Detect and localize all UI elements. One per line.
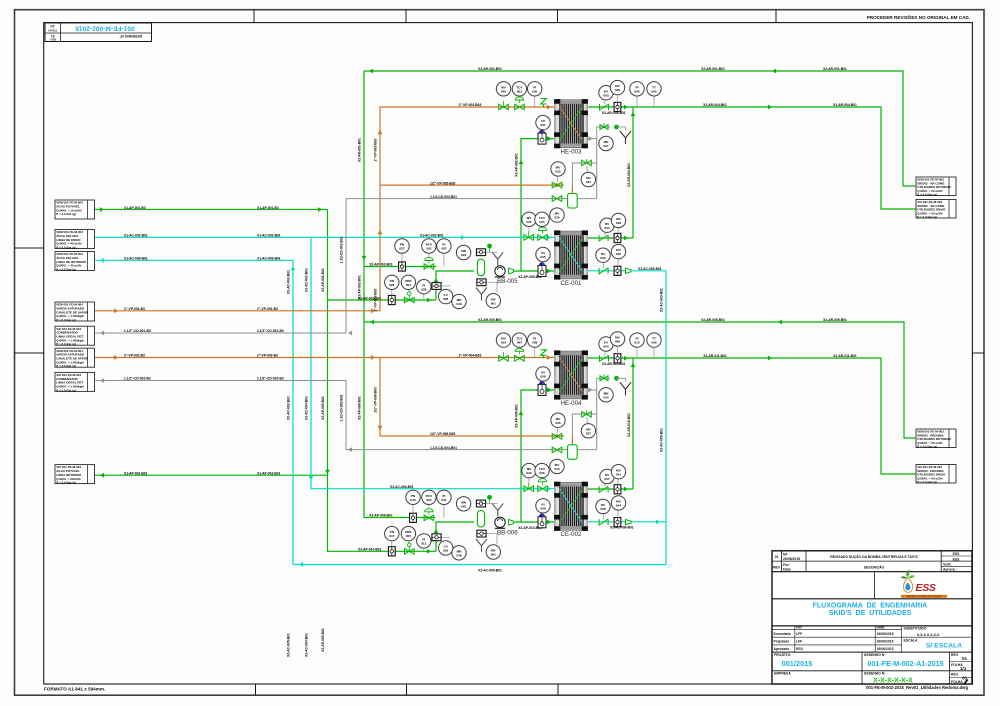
- svg-text:027: 027: [399, 247, 404, 251]
- svg-text:P = 3,0 Bar (g): P = 3,0 Bar (g): [56, 318, 76, 322]
- wire green riser BB-005 discharge to HE-003 inlet: [521, 139, 554, 271]
- svg-text:002: 002: [491, 553, 496, 557]
- svg-text:1.1/2"-CD-002-B3: 1.1/2"-CD-002-B3: [124, 377, 151, 381]
- heat exchanger CE-002 (plate, chilled water): [554, 482, 588, 538]
- svg-text:REV: REV: [773, 565, 781, 569]
- svg-text:DESCRIÇÃO: DESCRIÇÃO: [864, 565, 885, 570]
- source box B1 agua potavel: [55, 200, 95, 219]
- svg-text:X1-AC-001-B01: X1-AC-001-B01: [124, 234, 148, 238]
- arrow suction2 bottom skid: [427, 549, 431, 554]
- valve condensate bottom skid: [552, 447, 562, 453]
- svg-text:X1-AC-003-B01: X1-AC-003-B01: [124, 257, 148, 261]
- svg-text:006: 006: [651, 89, 656, 93]
- svg-text:005: 005: [539, 220, 544, 224]
- instrument TT-006: [647, 82, 661, 96]
- svg-text:CE-002: CE-002: [561, 531, 583, 538]
- svg-text:PROCEDER REVISÕES NO ORIGIN: PROCEDER REVISÕES NO ORIGINAL EM CAD.: [867, 14, 970, 20]
- svg-text:PROJETO:: PROJETO:: [774, 653, 791, 657]
- svg-text:007: 007: [441, 247, 446, 251]
- instrument MN-029: [452, 294, 466, 308]
- svg-text:012: 012: [421, 542, 426, 546]
- stem MV meter cyan top skid: [617, 259, 620, 266]
- ball vent bottom skid: [614, 376, 619, 381]
- svg-text:01: 01: [51, 34, 55, 38]
- solenoid valve XV CE inlet bottom skid: [538, 517, 546, 528]
- pump BB-006 centrifugal: [495, 517, 518, 536]
- instrument XV-008: [536, 367, 550, 381]
- valve MV steam block bottom skid: [499, 356, 509, 362]
- svg-text:053: 053: [501, 341, 506, 345]
- valve condensate top skid: [552, 196, 562, 202]
- svg-text:X1-AP-002-B01: X1-AP-002-B01: [257, 472, 281, 476]
- svg-text:P = 5,0 Bar (g): P = 5,0 Bar (g): [917, 480, 937, 484]
- svg-text:1/2"-VP-006-B03: 1/2"-VP-006-B03: [430, 432, 456, 436]
- instrument XV-005: [536, 247, 550, 261]
- check valve CE outlet green top skid: [599, 235, 608, 241]
- svg-text:S/ ESCALA: S/ ESCALA: [926, 643, 962, 650]
- sink box B5 condensado: [55, 326, 95, 346]
- revision table: [772, 551, 972, 572]
- svg-text:LFF: LFF: [796, 632, 802, 636]
- flow element CE outlet cyan top skid: [614, 266, 621, 275]
- wire green BB-006 discharge to CE-002: [514, 521, 554, 523]
- instrument EV-004: [599, 337, 613, 351]
- svg-text:002: 002: [517, 89, 522, 93]
- svg-text:REV.: REV.: [951, 653, 959, 657]
- funnel separator vent top skid: [492, 252, 503, 265]
- wire green CE-001 outlet: [588, 237, 633, 239]
- instrument MV-041: [611, 465, 625, 479]
- svg-text:REVISADO SUÇÃO DA BOMBA CE: REVISADO SUÇÃO DA BOMBA CENTRIFUGA E TAG…: [830, 554, 918, 559]
- check valve CE outlet green bottom skid: [599, 486, 608, 492]
- wire gray bottom trap line: [346, 449, 597, 451]
- wire green top manifold line2 riser into separator: [436, 271, 474, 300]
- wire green box8 return line: [95, 474, 328, 476]
- instrument MN-026: [456, 245, 470, 259]
- pressure control valve PCV top skid: [424, 264, 434, 270]
- svg-text:028: 028: [616, 221, 621, 225]
- svg-text:037: 037: [586, 431, 591, 435]
- svg-text:001: 001: [491, 301, 496, 305]
- instrument PN-028: [385, 275, 399, 289]
- wire green BB-005 discharge to CE-001: [514, 270, 554, 272]
- svg-text:P = 3,0 Bar (g): P = 3,0 Bar (g): [56, 364, 76, 368]
- svg-text:040: 040: [554, 467, 559, 471]
- svg-text:X2-AP-006-B01: X2-AP-006-B01: [369, 514, 393, 518]
- solenoid valve XV CE inlet top skid: [538, 266, 546, 277]
- instrument PI-007: [437, 239, 451, 253]
- svg-text:ESCALA: ESCALA: [904, 639, 918, 643]
- instrument DV-006: [596, 248, 610, 262]
- valve steam trap inlet top skid: [552, 182, 562, 188]
- arrow HE condensate out top skid: [588, 136, 592, 141]
- svg-text:X2-AP-001-B01: X2-AP-001-B01: [321, 268, 325, 292]
- svg-text:X2-AR-005-B01: X2-AR-005-B01: [478, 318, 502, 322]
- stem EV top skid: [604, 100, 605, 104]
- sink box R4 envio skid: [916, 465, 956, 485]
- svg-text:025: 025: [526, 220, 531, 224]
- level glass top skid: [432, 283, 441, 290]
- solenoid valve XV HE inlet bottom skid: [538, 384, 546, 395]
- sink box R2 envio skid: [916, 200, 956, 220]
- instrument MN-034: [599, 388, 613, 402]
- instrument MV-036: [551, 413, 565, 427]
- stem MV meter green bottom skid: [617, 479, 620, 485]
- stem PI suction bottom skid: [443, 504, 445, 518]
- sink box B3 agua gelada retorno: [55, 252, 95, 272]
- svg-text:044: 044: [616, 504, 621, 508]
- svg-text:045: 045: [501, 89, 506, 93]
- wire vent elbow bottom skid: [617, 378, 626, 382]
- svg-text:BB-006: BB-006: [497, 529, 518, 536]
- funnel separator vent bottom skid: [492, 504, 503, 517]
- instrument PI-009: [528, 333, 542, 347]
- svg-text:2"-VP-002-B3: 2"-VP-002-B3: [124, 354, 145, 358]
- air separator bottom skid: [477, 511, 484, 528]
- svg-text:P = 4,0 Bar (g): P = 4,0 Bar (g): [56, 246, 76, 250]
- flow element HE outlet top skid: [614, 102, 621, 111]
- svg-text:1/2"-VP-006-B03: 1/2"-VP-006-B03: [374, 387, 378, 413]
- top-left rotated doc number strip: [45, 23, 152, 42]
- svg-text:008: 008: [540, 375, 545, 379]
- stem XV HE top skid: [542, 130, 544, 133]
- svg-text:Executado: Executado: [774, 632, 791, 636]
- svg-text:002: 002: [426, 247, 431, 251]
- arrow HE condensate out bottom skid: [588, 388, 592, 393]
- svg-text:X2-AP-002-B01: X2-AP-002-B01: [515, 153, 519, 177]
- instrument MV-040: [550, 459, 564, 473]
- instrument MV-030: [611, 244, 625, 258]
- instrument TCV-005: [535, 212, 549, 226]
- solenoid valve XV HE inlet top skid: [538, 133, 546, 144]
- instrument TT-008: [647, 333, 661, 347]
- stem PI header top skid: [636, 96, 638, 107]
- instrument CV-018: [439, 541, 453, 555]
- wire orange steam supply box4: [95, 310, 381, 312]
- fold marks left: [15, 247, 44, 249]
- svg-text:ESS: ESS: [953, 552, 961, 556]
- wire cyan box3 return line: [95, 259, 294, 261]
- wire green top suction branch (X2-AP-002-B01): [364, 266, 436, 268]
- instrument MV-039: [522, 463, 536, 477]
- instrument MN-045: [456, 497, 470, 511]
- title block outer frame: [772, 551, 972, 684]
- svg-text:Por:: Por:: [796, 626, 803, 630]
- instrument PI-006: [630, 82, 644, 96]
- heat exchanger HE-003 (plate, steam/water): [554, 99, 588, 155]
- svg-text:P = 5,0 Bar (g): P = 5,0 Bar (g): [917, 215, 937, 219]
- svg-text:FOLHA: FOLHA: [48, 28, 57, 32]
- svg-text:008: 008: [600, 507, 605, 511]
- stem PN suction1 top skid: [401, 253, 403, 262]
- globe valve suction2 top skid: [405, 297, 415, 303]
- wire cyan bottom return header: [293, 564, 666, 566]
- svg-text:006: 006: [540, 506, 545, 510]
- valve steam trap inlet bottom skid: [552, 434, 562, 440]
- svg-text:008: 008: [651, 341, 656, 345]
- svg-text:ESS: ESS: [953, 557, 961, 561]
- pump BB-005 centrifugal: [495, 266, 518, 285]
- stem TT header top skid: [653, 96, 655, 107]
- reducer CE outlet cyan top skid: [626, 268, 632, 273]
- control valve TCV steam top skid: [515, 104, 525, 110]
- wire orange steam supply box6 to HE-004: [95, 357, 555, 359]
- wire green top manifold line2: [328, 299, 437, 301]
- svg-text:X2-AP-002-B01: X2-AP-002-B01: [358, 275, 362, 299]
- stem MV meter top skid: [617, 95, 619, 103]
- valve vent bottom skid: [600, 376, 608, 381]
- stem MV trap bottom skid: [556, 427, 559, 433]
- svg-text:P = 3,0 Bar (g): P = 3,0 Bar (g): [917, 193, 937, 197]
- valve trap bypass top skid: [582, 160, 592, 166]
- flow element CE outlet cyan bottom skid: [614, 518, 621, 527]
- source box B4 vapor saturado: [55, 302, 95, 322]
- svg-text:018: 018: [443, 549, 448, 553]
- svg-text:2"-VP-001-B3: 2"-VP-001-B3: [124, 307, 145, 311]
- funnel separator drain top skid: [476, 288, 487, 301]
- svg-text:X2-AR-010-B01: X2-AR-010-B01: [627, 413, 631, 437]
- svg-text:X-X-X-X-X-X: X-X-X-X-X-X: [873, 677, 913, 684]
- instrument MN-027: [599, 136, 613, 150]
- sight glass bottom bottom skid: [477, 530, 486, 537]
- wire green riser CE-002 outlet to HE-004 line: [632, 358, 634, 489]
- instrument PN-027: [395, 239, 409, 253]
- svg-text:X2-AC-004-B01: X2-AC-004-B01: [390, 485, 414, 489]
- svg-text:Verif.:: Verif.:: [943, 563, 952, 567]
- flow element suction2 top skid: [388, 295, 395, 304]
- instrument MV-026: [550, 208, 564, 222]
- svg-text:REV.: REV.: [951, 673, 959, 677]
- svg-text:2"-VP-002-B3: 2"-VP-002-B3: [257, 354, 278, 358]
- wire gray HE-004 condensate outlet: [588, 390, 597, 450]
- stem PI top skid: [534, 96, 536, 107]
- vent ball separator bottom skid: [487, 495, 492, 500]
- svg-text:P = 3,0 Bar (g): P = 3,0 Bar (g): [56, 342, 76, 346]
- valve vent top skid: [600, 125, 608, 130]
- funnel drain top skid: [620, 131, 631, 144]
- svg-text:1/1: 1/1: [960, 666, 967, 671]
- sink box B8 agua potavel retorno: [55, 465, 95, 485]
- svg-text:16/06/2015: 16/06/2015: [877, 632, 894, 636]
- svg-text:029: 029: [456, 302, 461, 306]
- svg-text:CE-001: CE-001: [561, 280, 583, 287]
- stem PRE top skid: [407, 290, 410, 292]
- svg-text:X2-AP-006-B01: X2-AP-006-B01: [515, 404, 519, 428]
- svg-text:X2-AC-002-B01: X2-AC-002-B01: [287, 270, 291, 294]
- stem MV meter green top skid: [617, 228, 620, 234]
- svg-text:X1-AP-001-B3: X1-AP-001-B3: [124, 206, 146, 210]
- source box B2 agua gelada envio: [55, 230, 95, 250]
- svg-text:X2-AC-003-B01: X2-AC-003-B01: [638, 267, 662, 271]
- svg-text:032: 032: [555, 170, 560, 174]
- svg-text:1.1/2-CD-003-B01: 1.1/2-CD-003-B01: [430, 195, 457, 199]
- svg-text:003: 003: [603, 93, 608, 97]
- svg-text:DESENHO Nº: DESENHO Nº: [864, 672, 886, 676]
- svg-text:X2-AP-006-B01: X2-AP-006-B01: [358, 396, 362, 420]
- instrument MV-037: [581, 424, 595, 438]
- svg-text:005: 005: [406, 534, 411, 538]
- heat exchanger HE-004 (plate, steam/water): [554, 350, 588, 406]
- svg-text:001-FE-M-002-A1-2015: 001-FE-M-002-A1-2015: [867, 659, 943, 668]
- instrument MV-001: [486, 294, 500, 308]
- stem PRE bottom skid: [407, 541, 410, 543]
- svg-text:039: 039: [526, 471, 531, 475]
- svg-text:X2-AR-001-B01: X2-AR-001-B01: [823, 67, 847, 71]
- svg-text:046: 046: [410, 498, 415, 502]
- wire green riser CE-001 outlet to HE-003 line: [632, 107, 634, 238]
- wire orange trap branch top: [380, 184, 564, 186]
- wire gray HE-003 condensate outlet: [588, 139, 597, 199]
- stem PN suction2 top skid: [391, 290, 393, 296]
- svg-text:X2-AC-002-B01: X2-AC-002-B01: [287, 396, 291, 420]
- instrument PCV-002: [422, 239, 436, 253]
- svg-text:26/06/2015: 26/06/2015: [783, 557, 800, 561]
- svg-text:X2-AC-003-B01: X2-AC-003-B01: [660, 288, 664, 312]
- stem PCV bottom skid: [428, 505, 430, 510]
- valve chilled water block bottom skid: [524, 486, 534, 492]
- instrument TCV-006: [535, 463, 549, 477]
- logo row divider: [874, 572, 876, 599]
- instrument PI-011: [437, 490, 451, 504]
- svg-text:011: 011: [441, 498, 446, 502]
- instrument PCV-003: [422, 490, 436, 504]
- svg-text:X1-AP-002-B01: X1-AP-002-B01: [124, 472, 148, 476]
- svg-text:1.1/2"-CD-002-B3: 1.1/2"-CD-002-B3: [257, 377, 284, 381]
- svg-text:1.1/2-CD-002-B01: 1.1/2-CD-002-B01: [340, 394, 344, 421]
- wire cyan chilled water supply to CE-001: [95, 236, 555, 238]
- svg-text:ESS: ESS: [916, 582, 936, 594]
- pressure control valve PCV bottom skid: [424, 515, 434, 521]
- svg-text:004: 004: [604, 226, 609, 230]
- stem EV bottom skid: [604, 351, 605, 355]
- stem MV meter cyan bottom skid: [617, 510, 620, 517]
- wire green return header top (X2-AR-001-B01): [364, 71, 916, 186]
- svg-text:X2-AR-004-B01: X2-AR-004-B01: [833, 103, 857, 107]
- wire vent stub bottom skid: [597, 378, 610, 390]
- svg-text:004: 004: [517, 341, 522, 345]
- svg-text:HE-003: HE-003: [561, 149, 583, 156]
- instrument MV-006: [610, 332, 624, 346]
- sample point Z top skid: [541, 99, 547, 108]
- sight glass top top skid: [476, 249, 485, 256]
- steam trap bottom skid: [568, 445, 578, 460]
- svg-text:X2-AC-004-B01: X2-AC-004-B01: [305, 396, 309, 420]
- svg-text:16/06/2015: 16/06/2015: [877, 647, 894, 651]
- instrument MV-032: [551, 162, 565, 176]
- svg-text:X2-AP-005-B01: X2-AP-005-B01: [321, 628, 325, 652]
- svg-text:Projetado: Projetado: [774, 640, 790, 644]
- svg-text:REV.: REV.: [50, 38, 56, 42]
- globe valve suction2 bottom skid: [405, 549, 415, 555]
- wire green header riser V4 (return collector): [364, 71, 435, 518]
- svg-text:DESENHO Nº: DESENHO Nº: [119, 34, 142, 38]
- svg-text:SKID'S DE UTILIDADES: SKID'S DE UTILIDADES: [829, 610, 912, 617]
- svg-text:FOLHA: FOLHA: [951, 680, 963, 684]
- svg-text:1.1/2-CD-001-B01: 1.1/2-CD-001-B01: [340, 236, 344, 263]
- stem XV CE bottom skid: [542, 513, 544, 517]
- instrument PN-047: [385, 526, 399, 540]
- svg-text:005: 005: [532, 89, 537, 93]
- svg-text:16/06/2015: 16/06/2015: [877, 640, 894, 644]
- svg-text:P = 3,0 Bar (g): P = 3,0 Bar (g): [56, 388, 76, 392]
- svg-text:X2-AR-001-B01: X2-AR-001-B01: [478, 67, 502, 71]
- fold mark right: [972, 352, 984, 354]
- flow element suction1 bottom skid: [410, 513, 417, 522]
- svg-text:1.1/2-CD-004-B01: 1.1/2-CD-004-B01: [430, 446, 457, 450]
- flow element HE outlet bottom skid: [614, 354, 621, 363]
- svg-text:007: 007: [540, 123, 545, 127]
- sink box B7 condensado: [55, 372, 95, 392]
- svg-text:006: 006: [615, 340, 620, 344]
- svg-text:030: 030: [616, 252, 621, 256]
- instrument DV-008: [596, 499, 610, 513]
- instrument CV-008: [439, 289, 453, 303]
- svg-text:2"-VP-003-B03: 2"-VP-003-B03: [374, 289, 378, 312]
- svg-text:036: 036: [555, 421, 560, 425]
- svg-text:01: 01: [775, 555, 779, 559]
- flow element suction2 bottom skid: [388, 547, 395, 556]
- wire green CE-002 outlet: [588, 488, 633, 490]
- wire cyan CE-001 return going right/down: [588, 271, 666, 565]
- stem MV bypass top skid: [586, 166, 589, 172]
- stem XV HE bottom skid: [542, 381, 544, 384]
- ball vent top skid: [614, 125, 619, 130]
- svg-text:P = 4,0 Bar (g): P = 4,0 Bar (g): [56, 212, 76, 216]
- svg-text:X2-AR-011-B01: X2-AR-011-B01: [833, 354, 857, 358]
- svg-text:ESS: ESS: [796, 647, 804, 651]
- svg-text:2"-VP-003-B03: 2"-VP-003-B03: [374, 139, 378, 162]
- svg-text:005: 005: [615, 88, 620, 92]
- instrument PRE-004: [401, 275, 415, 289]
- valve MV steam block top skid: [499, 104, 509, 110]
- svg-text:028: 028: [389, 283, 394, 287]
- source box R1 retorno skid: [916, 177, 956, 197]
- wire green box1 supply line: [95, 209, 328, 211]
- svg-text:006: 006: [600, 256, 605, 260]
- svg-text:LFF: LFF: [796, 640, 802, 644]
- svg-text:ENERGY SAVING SOLUTIONS: ENERGY SAVING SOLUTIONS: [907, 595, 942, 598]
- instrument XV-006: [536, 499, 550, 513]
- svg-text:1.1/2"-CD-001-B3: 1.1/2"-CD-001-B3: [257, 329, 284, 333]
- svg-text:047: 047: [389, 534, 394, 538]
- instrument EV-003: [599, 86, 613, 100]
- svg-text:001-FE-M-002-2015_Rev01_Utilid: 001-FE-M-002-2015_Rev01_Utilidades Redom…: [866, 685, 968, 690]
- sample point Z bottom skid: [541, 350, 547, 359]
- flow element CE outlet green top skid: [614, 233, 621, 242]
- control valve TCV steam bottom skid: [515, 356, 525, 362]
- instrument MV-005: [610, 80, 624, 94]
- svg-text:X2-AR-005-B01: X2-AR-005-B01: [823, 318, 847, 322]
- fold marks top: [253, 10, 255, 23]
- svg-text:FORMATO A1-841 x 594mm.: FORMATO A1-841 x 594mm.: [44, 687, 105, 692]
- svg-text:005: 005: [540, 255, 545, 259]
- instrument MV-025: [522, 212, 536, 226]
- svg-text:HE-004: HE-004: [561, 400, 583, 407]
- project row: [772, 652, 972, 685]
- source box B6 vapor saturado: [55, 348, 95, 368]
- svg-text:041: 041: [616, 472, 621, 476]
- svg-text:X-X-X-X-X-X-X: X-X-X-X-X-X-X: [917, 633, 940, 637]
- svg-text:008: 008: [443, 297, 448, 301]
- svg-text:2"-VP-001-B3: 2"-VP-001-B3: [257, 307, 278, 311]
- instrument MV-028: [611, 213, 625, 227]
- instrument MV-045: [496, 82, 510, 96]
- svg-text:001/2015: 001/2015: [782, 659, 813, 668]
- arrow suction2 top skid: [427, 298, 431, 303]
- svg-text:1/2"-VP-005-B03: 1/2"-VP-005-B03: [430, 181, 456, 185]
- source box R3 retorno skid: [916, 429, 956, 449]
- control valve TCV chilled bottom skid: [538, 486, 548, 492]
